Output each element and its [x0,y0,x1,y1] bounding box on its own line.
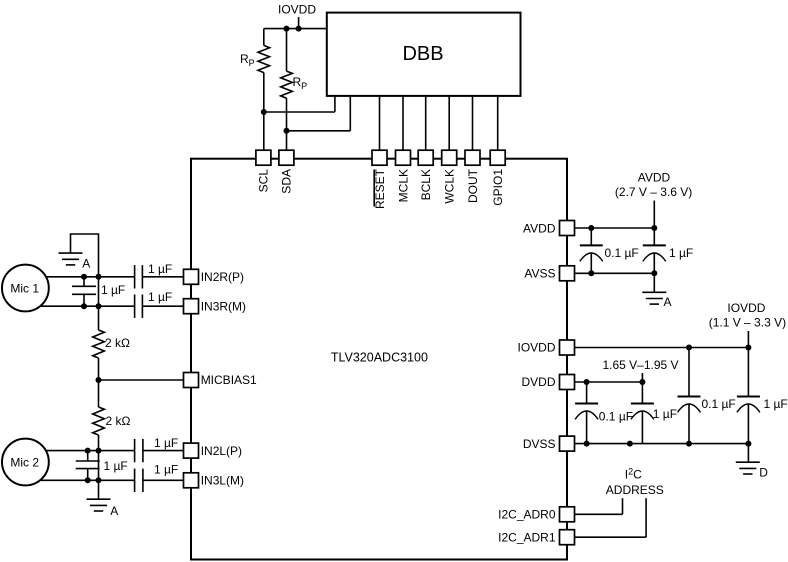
svg-text:TLV320ADC3100: TLV320ADC3100 [331,350,428,364]
wire DVDD pin rail [575,381,643,383]
capacitor C9 bottom stub [586,411,588,444]
junction DVSS/C9 [584,441,590,447]
capacitor C1 1uF (IN2R series) [135,265,143,288]
junction AVDD/C7 [588,225,594,231]
capacitor C10 1uF (DVDD bulk) [631,404,654,420]
junction AVDD/C8 [651,225,657,231]
wire AVDD pin rail [575,227,655,229]
wire DBB to RESET [379,96,381,151]
wire IN3L cap to pin [143,479,184,481]
wire IN2R cap to pin [142,276,183,278]
capacitor C10 1uF top stub [641,382,643,404]
pin MICBIAS1 [184,373,199,388]
capacitor C6 bottom stub [87,469,89,481]
capacitor C6 1uF (Mic2 shunt) top stub [87,451,89,461]
svg-text:GPIO1: GPIO1 [491,169,505,206]
svg-text:D: D [759,465,768,479]
svg-text:AVDD: AVDD [638,170,671,184]
pin IN3L(M) [184,473,199,488]
wire RP1 to SCL pin [263,73,265,152]
pin IN3R(M) [184,299,199,314]
svg-text:IN3R(M): IN3R(M) [201,299,246,313]
pin BCLK [418,150,433,165]
svg-text:1 µF: 1 µF [104,459,128,473]
ground D (DVSS) [736,462,760,474]
wire IN3L to ground A [98,480,100,499]
svg-text:DBB: DBB [402,43,443,65]
pin IN2L(P) [184,443,199,458]
svg-text:1 µF: 1 µF [669,246,693,260]
junction C6/IN3L wire [85,477,91,483]
svg-text:AVSS: AVSS [524,267,555,281]
junction C3/IN3R wire [81,303,87,309]
svg-text:DVSS: DVSS [523,437,556,451]
capacitor C5 1uF (IN3L series) [135,469,143,492]
junction AVSS/C7 [588,270,594,276]
pin DOUT [465,150,480,165]
svg-text:2 kΩ: 2 kΩ [106,414,131,428]
wire DBB to WCLK [448,96,450,151]
wire DBB to DOUT [472,96,474,151]
wire Mic1 to IN2R coupling cap [25,276,135,278]
wire I2C_ADR1 riser [645,498,647,537]
svg-text:1 µF: 1 µF [148,290,172,304]
capacitor C12 1uF top stub [747,348,749,397]
junction C6/IN2L wire [85,448,91,454]
svg-text:SDA: SDA [280,169,294,194]
pin GPIO1 [490,150,505,165]
pin WCLK [442,150,457,165]
svg-text:IOVDD: IOVDD [517,341,555,355]
capacitor C4 1uF (IN2L series) [135,439,143,462]
wire DBB to BCLK [425,96,427,151]
capacitor C8 bottom stub [653,253,655,273]
pin SDA [279,150,294,165]
capacitor C11 0.1uF top stub [688,348,690,397]
wire pull-up rail to DBB [264,28,327,30]
svg-text:IN2R(P): IN2R(P) [201,270,244,284]
svg-text:1 µF: 1 µF [148,262,172,276]
svg-text:Mic 1: Mic 1 [10,282,39,296]
wire Mic2 to IN2L coupling cap [25,450,135,452]
svg-text:IOVDD: IOVDD [278,3,316,17]
svg-text:1 µF: 1 µF [154,436,178,450]
capacitor C12 1uF (IOVDD bulk) [737,397,760,413]
junction SDA branch [284,128,290,134]
svg-text:A: A [82,256,90,270]
wire DBB to MCLK [402,96,404,151]
pin IOVDD [560,340,575,355]
wire DBB SDA branch vertical [349,96,351,131]
wire Mic2 to IN3L coupling cap [25,479,135,481]
junction DVDD/C10 [639,379,645,385]
ground A (Mic2) [87,499,111,511]
svg-text:(2.7 V – 3.6 V): (2.7 V – 3.6 V) [615,185,692,199]
svg-text:AVDD: AVDD [523,221,556,235]
pin AVSS [560,266,575,281]
svg-text:BCLK: BCLK [419,169,433,200]
wire IN3R cap to pin [142,305,183,307]
svg-text:IOVDD: IOVDD [727,301,765,315]
capacitor C8 1uF (AVDD bulk) [643,245,666,261]
capacitor C3 1uF (Mic1 shunt) top stub [83,277,85,287]
svg-text:1 µF: 1 µF [764,397,788,411]
pin I2C_ADR0 [560,507,575,522]
pin IN2R(P) [184,269,199,284]
capacitor C9 0.1uF (DVDD decoupling) [575,404,598,420]
junction DVSS/C12 [745,441,751,447]
wire I2C_ADR0 horizontal [575,513,623,515]
wire DVSS to ground D [747,444,749,463]
junction AVSS/C8 [651,270,657,276]
svg-text:2 kΩ: 2 kΩ [105,336,130,350]
wire rail to resistor RP1 [263,29,265,46]
wire IOVDD stub to pull-up rail [298,17,300,29]
svg-text:1.65 V–1.95 V: 1.65 V–1.95 V [602,358,678,372]
pin RESET [372,150,387,165]
svg-text:WCLK: WCLK [443,169,457,204]
wire DVSS pin rail [575,443,749,445]
wire R2 to IN2L wire [98,435,100,451]
wire R1 to MICBIAS junction [98,358,100,407]
junction bias/IN2L wire [96,448,102,454]
junction MICBIAS/bias line [96,377,102,383]
capacitor C8 1uF top stub [653,228,655,245]
pin RESET overline [373,170,375,207]
junction rail/SDA pull-up [284,26,290,32]
wire I2C_ADR1 horizontal [575,536,647,538]
pin SCL [256,150,271,165]
capacitor C6 1uF (Mic2 shunt) [76,461,100,469]
svg-text:MICBIAS1: MICBIAS1 [201,373,257,387]
ground A (Mic1 bias) hook wire [71,234,99,277]
junction IOVDD/C12 [745,345,751,351]
pin DVDD [560,375,575,390]
svg-text:1 µF: 1 µF [653,407,677,421]
resistor RP2 (SDA pull-up) [281,71,293,98]
pin AVDD [560,221,575,236]
junction SCL branch [261,109,267,115]
capacitor C11 bottom stub [688,404,690,444]
capacitor C12 bottom stub [747,404,749,444]
junction DVSS/C11 [686,441,692,447]
junction bias/IN3L wire [96,477,102,483]
wire DBB to GPIO1 [497,96,499,151]
capacitor C7 bottom stub [590,253,592,273]
wire IOVDD supply drop [747,331,749,348]
capacitor C10 bottom stub [641,411,643,444]
junction IOVDD/C11 [686,345,692,351]
svg-text:ADDRESS: ADDRESS [606,483,664,497]
resistor R1 2k (bias) [93,330,105,358]
svg-text:DOUT: DOUT [466,168,480,203]
junction C3/IN2R wire [81,274,87,280]
capacitor C3 1uF (Mic1 shunt) [72,286,96,294]
junction bias/IN3R wire [96,303,102,309]
svg-text:DVDD: DVDD [521,375,555,389]
capacitor C3 bottom stub [83,294,85,306]
svg-text:IN2L(P): IN2L(P) [201,444,242,458]
junction bias/IN2R wire [96,274,102,280]
capacitor C7 0.1uF top stub [590,228,592,245]
svg-text:0.1 µF: 0.1 µF [702,397,736,411]
wire I2C_ADR0 riser [622,498,624,514]
pin MCLK [396,150,411,165]
capacitor C11 0.1uF (IOVDD decoupling) [678,397,701,413]
wire rail to resistor RP2 [286,29,288,72]
svg-text:MCLK: MCLK [396,169,410,202]
wire IN2L cap to pin [143,450,184,452]
resistor RP1 (SCL pull-up) [258,45,270,72]
wire RP2 to SDA pin [286,98,288,151]
wire AVSS pin rail [575,272,655,274]
ground A (AVSS) [642,292,666,304]
svg-text:I2C_ADR0: I2C_ADR0 [498,508,556,522]
svg-text:I2C: I2C [625,467,642,482]
svg-text:IN3L(M): IN3L(M) [201,474,244,488]
junction rail/IOVDD stub [296,26,302,32]
wire MICBIAS1 to bias line [99,379,184,381]
DBB block [327,13,521,96]
resistor R2 2k (bias) [93,407,105,435]
wire DBB SCL branch vertical [334,96,336,112]
pin DVSS [560,436,575,451]
microphone Mic2 [2,439,49,486]
svg-text:0.1 µF: 0.1 µF [599,410,633,424]
wire DBB SDA branch horizontal [287,130,351,132]
wire AVSS to ground A [653,273,655,292]
wire Mic1 to IN3R coupling cap [25,305,135,307]
wire IOVDD pin rail [575,347,749,349]
svg-text:(1.1 V – 3.3 V): (1.1 V – 3.3 V) [709,315,786,329]
svg-text:0.1 µF: 0.1 µF [605,246,639,260]
junction DVDD/C9 [584,379,590,385]
capacitor C7 0.1uF (AVDD decoupling) [580,245,603,261]
svg-text:1 µF: 1 µF [154,463,178,477]
pin I2C_ADR1 [560,530,575,545]
microphone Mic1 [2,265,49,312]
svg-text:Mic 2: Mic 2 [10,456,39,470]
junction DVSS dot [627,441,633,447]
svg-text:A: A [664,295,672,309]
svg-text:I2C_ADR1: I2C_ADR1 [498,530,556,544]
IC U1 TLV320ADC3100 outline [191,159,567,560]
svg-text:SCL: SCL [257,169,271,193]
wire DBB SCL branch horizontal [264,111,335,113]
ground A (Mic1) [59,253,83,265]
capacitor C9 0.1uF top stub [586,382,588,404]
svg-text:1 µF: 1 µF [101,283,125,297]
svg-text:A: A [110,504,118,518]
capacitor C2 1uF (IN3R series) [135,295,143,318]
wire AVDD supply drop [653,201,655,229]
wire DVDD label drop [641,373,643,382]
wire IN2L to IN3L bias segment [98,451,100,481]
wire bias line IN3R to R1 [98,277,100,330]
